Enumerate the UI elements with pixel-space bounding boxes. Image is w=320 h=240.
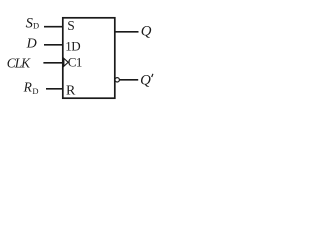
svg-text:Q: Q: [140, 72, 151, 88]
wire CLK input: [43, 62, 63, 64]
svg-text:D: D: [32, 86, 38, 96]
wire Q output: [115, 31, 139, 33]
svg-text:S: S: [67, 18, 75, 33]
svg-text:Q: Q: [141, 23, 152, 39]
svg-text:CLK: CLK: [7, 55, 31, 70]
inversion bubble on Q': [115, 78, 119, 82]
svg-text:R: R: [23, 80, 33, 95]
svg-text:1D: 1D: [65, 38, 80, 53]
svg-text:D: D: [33, 20, 39, 30]
svg-text:R: R: [66, 83, 76, 98]
wire R_D input: [46, 88, 63, 90]
flip-flop body U1: [63, 18, 115, 98]
wire Q' output: [119, 79, 138, 81]
wire D input: [44, 44, 63, 46]
wire S_D input: [44, 26, 63, 28]
dynamic-input triangle on C1: [64, 58, 68, 66]
svg-text:C1: C1: [68, 54, 82, 69]
svg-text:D: D: [26, 37, 37, 52]
prime mark of Q': [152, 74, 153, 77]
